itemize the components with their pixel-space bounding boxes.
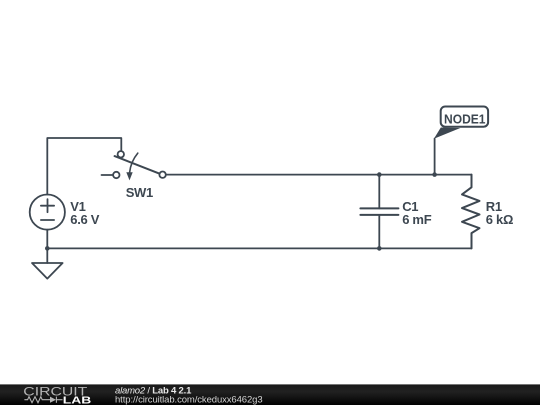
- svg-text:6.6 V: 6.6 V: [70, 212, 99, 227]
- NODE1 flag box: [441, 107, 488, 127]
- logo diode cathode bar: [55, 397, 57, 403]
- wire node to ground symbol: [46, 248, 48, 263]
- C1 bottom plate: [360, 214, 398, 216]
- wire bottom rail: [47, 247, 471, 249]
- resistor R1: [462, 175, 480, 249]
- junction dot at NODE1: [432, 172, 437, 177]
- svg-text:6 kΩ: 6 kΩ: [486, 212, 513, 227]
- SW1 lever: [115, 156, 160, 174]
- SW1 actuation arrow arc: [130, 153, 138, 172]
- V1 minus sign: [41, 219, 54, 221]
- logo diode triangle: [50, 397, 56, 403]
- logo lead wire: [56, 399, 62, 401]
- SW1 output terminal: [159, 172, 165, 178]
- svg-text:SW1: SW1: [126, 185, 153, 200]
- junction dot at C1 bottom: [377, 246, 382, 251]
- SW1 arrow head: [126, 172, 132, 180]
- wire top rail to C1: [378, 175, 380, 209]
- CircuitLab logo resistor+diode glyph: [24, 397, 62, 403]
- svg-text:6 mF: 6 mF: [402, 212, 432, 227]
- svg-text:NODE1: NODE1: [444, 112, 486, 126]
- wire C1 to bottom rail: [378, 215, 380, 249]
- voltage source V1: [30, 195, 65, 249]
- ground triangle: [32, 263, 63, 279]
- switch SW1: [102, 151, 166, 180]
- SW1 open terminal: [113, 172, 119, 178]
- V1 plus sign: [41, 199, 54, 212]
- logo resistor zigzag: [24, 397, 50, 403]
- node flag NODE1: [434, 107, 488, 175]
- wire switch output to R1 top: [166, 174, 472, 176]
- wire V1 bottom to ground node: [46, 230, 48, 249]
- V1 body circle: [30, 195, 65, 230]
- svg-text:http://circuitlab.com/ckeduxx6: http://circuitlab.com/ckeduxx6462g3: [115, 395, 263, 405]
- junction dot at C1 top: [377, 172, 382, 177]
- capacitor C1: [360, 175, 398, 249]
- wire NODE1 flag to top rail: [434, 139, 436, 175]
- junction dot at V1 bottom: [45, 246, 50, 251]
- svg-text:LAB: LAB: [63, 396, 92, 405]
- NODE1 flag tail: [434, 128, 460, 139]
- ground: [32, 248, 63, 278]
- SW1 common terminal: [118, 151, 124, 157]
- wire V1 top to switch: [47, 138, 121, 195]
- SW1 open terminal stub wire: [102, 174, 114, 176]
- C1 top plate: [360, 207, 398, 209]
